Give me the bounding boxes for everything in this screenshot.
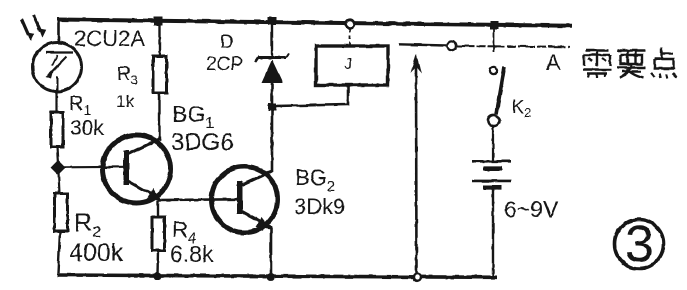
svg-text:BG2: BG2 <box>295 165 335 195</box>
svg-text:400k: 400k <box>69 239 124 267</box>
svg-text:D: D <box>220 32 234 53</box>
svg-text:1k: 1k <box>116 92 134 111</box>
svg-text:R1: R1 <box>69 93 91 118</box>
svg-text:R3: R3 <box>117 64 138 87</box>
svg-text:R2: R2 <box>74 209 101 241</box>
svg-text:A: A <box>546 50 561 75</box>
svg-text:BG1: BG1 <box>172 101 214 132</box>
svg-text:30k: 30k <box>70 117 104 140</box>
svg-text:K2: K2 <box>512 97 531 120</box>
svg-text:3DG6: 3DG6 <box>171 129 234 156</box>
svg-text:3: 3 <box>625 216 654 274</box>
svg-text:6~9V: 6~9V <box>504 196 559 222</box>
svg-text:3Dk9: 3Dk9 <box>294 194 345 219</box>
svg-text:6.8k: 6.8k <box>170 241 214 267</box>
svg-text:2CP: 2CP <box>206 54 243 75</box>
svg-text:J: J <box>344 56 352 73</box>
svg-text:2CU2A: 2CU2A <box>74 26 145 51</box>
